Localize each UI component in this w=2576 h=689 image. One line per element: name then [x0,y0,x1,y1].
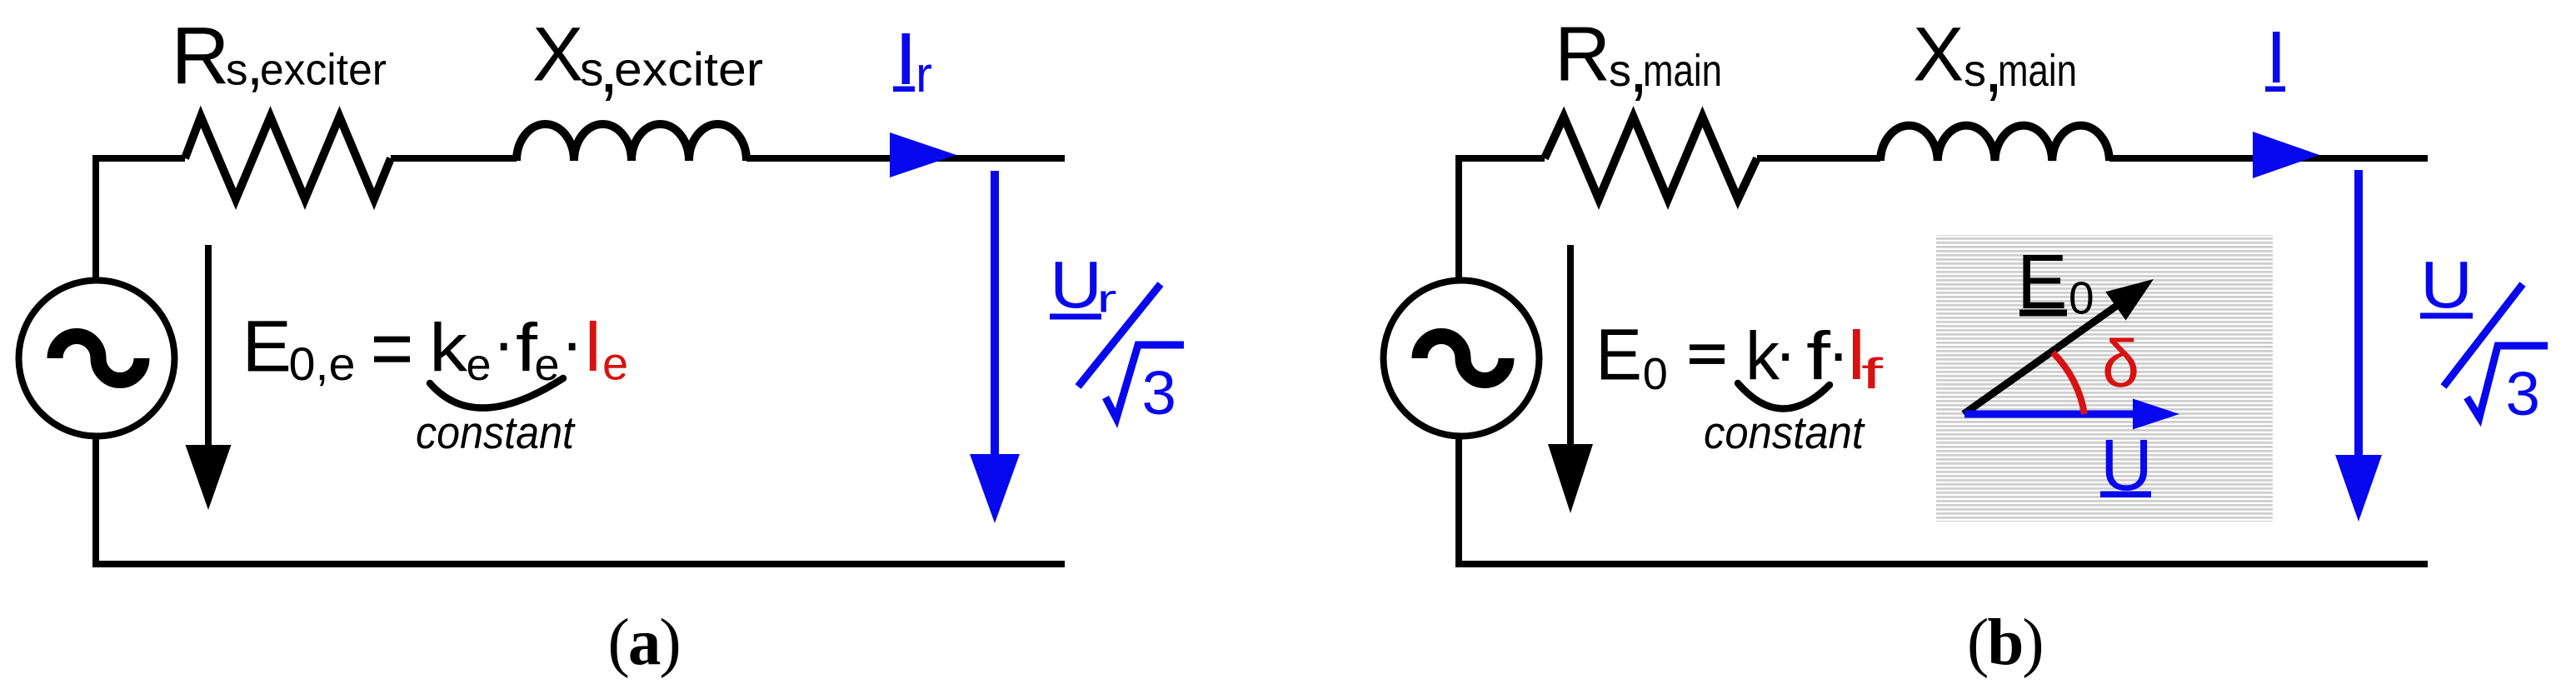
svg-text:e: e [467,340,492,390]
svg-text:0: 0 [1643,349,1668,399]
svg-text:U: U [1050,247,1102,322]
svg-text:X: X [532,12,583,97]
svg-text:R: R [172,11,230,102]
svg-text:r: r [1097,277,1117,321]
svg-text:3: 3 [2506,359,2540,428]
svg-text:main: main [1998,46,2077,96]
svg-text:0,e: 0,e [289,337,356,390]
svg-text:exciter: exciter [260,46,387,95]
svg-text:f: f [1861,350,1884,398]
svg-text:δ: δ [2102,327,2139,402]
svg-text:s: s [1609,46,1631,96]
svg-text:s: s [226,46,248,95]
svg-text:exciter: exciter [614,43,763,97]
svg-text:E: E [242,306,292,387]
svg-text:3: 3 [1142,358,1176,427]
svg-text:0: 0 [2069,272,2094,324]
svg-text:R: R [1555,11,1610,97]
svg-text:·: · [1775,315,1797,391]
svg-text:U: U [2420,247,2473,322]
svg-text:main: main [1643,46,1722,96]
svg-text:·: · [561,305,583,381]
svg-text:(b): (b) [1967,607,2043,679]
svg-text:E: E [1595,314,1642,396]
svg-text:(a): (a) [608,607,680,679]
svg-text:·: · [1827,315,1850,391]
svg-text:e: e [602,337,628,390]
svg-text:constant: constant [416,407,576,458]
svg-text:r: r [916,47,932,102]
svg-text:X: X [1913,12,1964,97]
svg-text:constant: constant [1704,407,1866,458]
svg-text:·: · [492,305,515,381]
svg-text:s: s [1964,46,1986,96]
svg-text:k: k [429,310,468,386]
